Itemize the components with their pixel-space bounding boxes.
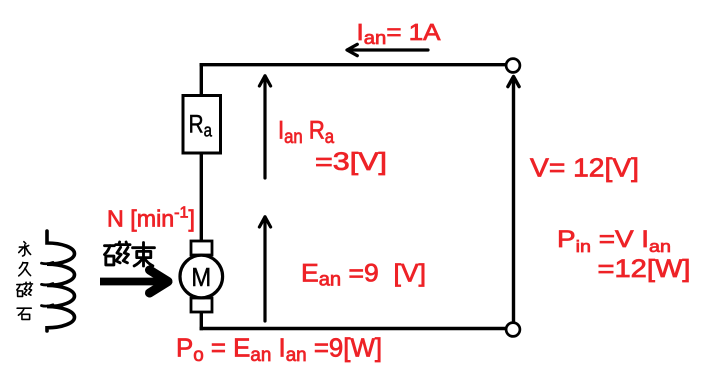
svg-text:V= 12[V]: V= 12[V] — [530, 153, 639, 183]
terminal node top-right — [506, 59, 520, 73]
永 — [19, 242, 31, 256]
label Pin = V Ian — [557, 226, 691, 283]
arrow voltage Ean (up) — [259, 217, 270, 321]
arrow flux (thick, pointing right at motor) — [100, 270, 168, 293]
石 — [17, 308, 31, 319]
arrow up on right wire (current into terminal) — [508, 77, 519, 87]
coil (permanent magnet field winding) — [42, 231, 75, 331]
svg-text:=12[W]: =12[W] — [598, 255, 691, 283]
wire right vertical (source branch) — [512, 78, 515, 323]
wire bottom horizontal — [200, 327, 506, 330]
resistor Ra value label — [189, 111, 213, 141]
motor M brush top — [191, 241, 212, 255]
svg-text:M: M — [191, 264, 211, 292]
label Po = Ean Ian = 9[W] — [176, 333, 382, 367]
arrow current Ian (top, pointing left) — [347, 44, 428, 55]
束 — [133, 243, 155, 266]
label Ean = 9[V] — [301, 260, 426, 291]
久 — [19, 262, 31, 275]
label Ian Ra = 3[V] — [278, 116, 387, 176]
label permanent magnet (kanji vertical: 永久磁石) — [17, 242, 33, 320]
wire top horizontal — [200, 63, 506, 66]
svg-text:Po = Ean Ian =9[W]: Po = Ean Ian =9[W] — [176, 333, 382, 367]
wire left vertical (Ra/motor branch) — [200, 63, 203, 330]
svg-text:N [min-1]: N [min-1] — [107, 205, 195, 232]
svg-text:=3[V]: =3[V] — [315, 148, 387, 176]
label flux (kanji: 磁束) — [105, 242, 155, 266]
label N [min-1] (speed) — [107, 205, 195, 232]
磁 — [17, 282, 33, 296]
arrow voltage IanRa (up) — [259, 76, 270, 178]
motor M (circle) — [180, 255, 223, 298]
svg-text:Pin =V Ian: Pin =V Ian — [557, 226, 671, 256]
resistor Ra (box) — [183, 96, 221, 154]
motor M letter — [191, 264, 211, 292]
label V = 12[V] — [530, 153, 639, 183]
svg-text:Ian= 1A: Ian= 1A — [357, 19, 442, 48]
svg-text:Ian Ra: Ian Ra — [278, 116, 334, 148]
terminal node bottom-right — [506, 323, 520, 337]
svg-text:Ean =9 [V]: Ean =9 [V] — [301, 260, 426, 291]
motor M brush bottom — [191, 298, 212, 312]
磁 — [105, 242, 130, 265]
label Ian = 1A — [357, 19, 442, 48]
